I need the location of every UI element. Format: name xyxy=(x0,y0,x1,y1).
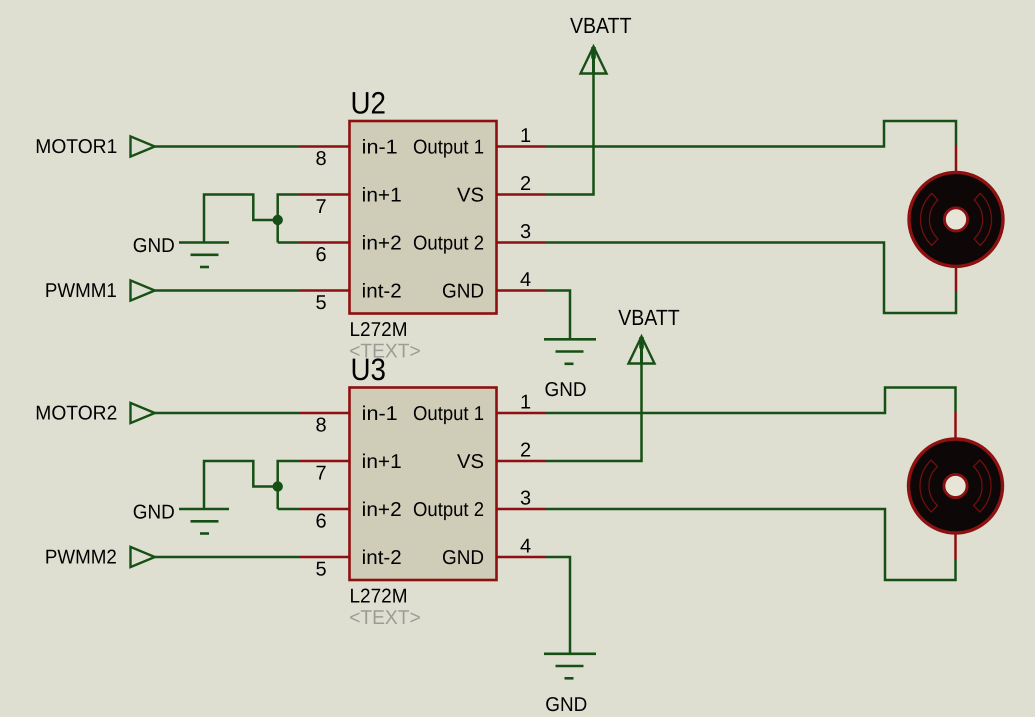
wire U2 pin 2 to VBATT xyxy=(546,74,594,195)
U2 pin 8 stub xyxy=(300,145,350,148)
wire U2 pin 6 branch xyxy=(278,241,300,244)
svg-text:GND: GND xyxy=(545,694,587,716)
svg-text:in+2: in+2 xyxy=(362,232,402,254)
terminal MOTOR1 xyxy=(131,136,155,156)
motor M1 top pin stub xyxy=(955,145,958,173)
ground symbol U3 inputs xyxy=(179,509,229,534)
svg-text:6: 6 xyxy=(315,511,326,533)
svg-text:3: 3 xyxy=(520,221,531,243)
U2 pin 1 stub xyxy=(496,145,546,148)
terminal PWMM1 xyxy=(131,280,155,300)
U2 pin 4 stub xyxy=(496,289,546,292)
svg-text:VS: VS xyxy=(457,451,484,473)
svg-text:4: 4 xyxy=(520,269,531,291)
svg-text:Output 2: Output 2 xyxy=(413,232,484,254)
junction U3 inputs xyxy=(273,481,283,491)
wire MOTOR1 to U2 pin 8 xyxy=(155,145,300,148)
svg-text:U2: U2 xyxy=(351,85,387,120)
svg-text:U3: U3 xyxy=(351,352,387,387)
motor M2 bottom pin stub xyxy=(954,533,957,559)
motor M1 bottom pin stub xyxy=(955,266,958,292)
svg-text:GND: GND xyxy=(442,280,484,302)
wire U2 pin 4 to ground xyxy=(546,291,570,340)
wire U3 pin 4 to ground xyxy=(546,557,570,654)
wire MOTOR2 to U3 pin 8 xyxy=(155,412,300,415)
junction U2 inputs xyxy=(273,215,283,225)
svg-text:GND: GND xyxy=(442,547,484,569)
svg-text:5: 5 xyxy=(315,559,326,581)
svg-text:PWMM1: PWMM1 xyxy=(45,280,117,302)
motor M2 xyxy=(909,439,1003,533)
wire U2 pin 1 to motor M1 top xyxy=(546,121,956,147)
power symbol VBATT (U3) xyxy=(629,337,655,365)
svg-text:GND: GND xyxy=(545,379,587,401)
power symbol VBATT (U2) xyxy=(581,47,607,75)
svg-text:PWMM2: PWMM2 xyxy=(45,547,117,569)
U3 pin 5 stub xyxy=(300,556,350,559)
motor M2 top pin stub xyxy=(954,412,957,441)
wire U2 pin 7 branch xyxy=(278,195,300,243)
svg-text:VS: VS xyxy=(457,184,484,206)
svg-text:2: 2 xyxy=(520,173,531,195)
motor M1 xyxy=(909,172,1003,266)
svg-text:7: 7 xyxy=(315,196,326,218)
wire U3 pin 3 to motor M2 bottom xyxy=(546,509,956,580)
svg-text:VBATT: VBATT xyxy=(570,13,632,38)
U3 pin 4 stub xyxy=(496,556,546,559)
U3 pin 8 stub xyxy=(300,412,350,415)
U2 pin 6 stub xyxy=(300,241,350,244)
svg-text:GND: GND xyxy=(133,501,175,523)
svg-text:Output 1: Output 1 xyxy=(413,136,484,158)
svg-text:MOTOR1: MOTOR1 xyxy=(35,136,117,158)
svg-text:1: 1 xyxy=(520,125,531,147)
wire U2 pin 3 to motor M1 bottom xyxy=(546,243,956,314)
ground symbol U2 inputs xyxy=(179,243,229,268)
svg-text:in-1: in-1 xyxy=(362,136,398,158)
svg-text:L272M: L272M xyxy=(350,586,408,608)
svg-text:GND: GND xyxy=(133,235,175,257)
U3 pin 2 stub xyxy=(496,460,546,463)
U3 pin 6 stub xyxy=(300,508,350,511)
svg-text:5: 5 xyxy=(315,292,326,314)
U2 pin 2 stub xyxy=(496,193,546,196)
U2 pin 3 stub xyxy=(496,241,546,244)
wire junction to ground loop U2 xyxy=(204,195,278,243)
svg-text:1: 1 xyxy=(520,392,531,414)
U2 pin 5 stub xyxy=(300,289,350,292)
U3 pin 3 stub xyxy=(496,508,546,511)
svg-text:L272M: L272M xyxy=(350,319,408,341)
svg-text:Output 2: Output 2 xyxy=(413,499,484,521)
wire U3 pin 1 to motor M2 top xyxy=(546,388,956,414)
wire PWMM2 to U3 pin 5 xyxy=(155,556,300,559)
svg-text:3: 3 xyxy=(520,488,531,510)
wire junction to ground loop U3 xyxy=(204,461,278,509)
svg-text:int-2: int-2 xyxy=(362,547,402,569)
svg-text:4: 4 xyxy=(520,536,531,558)
wire PWMM1 to U2 pin 5 xyxy=(155,289,300,292)
terminal MOTOR2 xyxy=(131,403,155,423)
wire U3 pin 2 to VBATT xyxy=(546,364,642,461)
svg-text:MOTOR2: MOTOR2 xyxy=(35,403,117,425)
wire U3 pin 6 branch xyxy=(278,508,300,511)
svg-text:6: 6 xyxy=(315,244,326,266)
svg-text:int-2: int-2 xyxy=(362,280,402,302)
U2 pin 7 stub xyxy=(300,193,350,196)
svg-text:in+1: in+1 xyxy=(362,184,402,206)
svg-text:in+1: in+1 xyxy=(362,451,402,473)
svg-text:7: 7 xyxy=(315,463,326,485)
ground symbol U2 pin 4 xyxy=(544,339,596,364)
svg-text:8: 8 xyxy=(315,415,326,437)
svg-text:in-1: in-1 xyxy=(362,403,398,425)
ground symbol U3 pin 4 xyxy=(544,654,596,679)
op-amp U3 body xyxy=(350,388,497,581)
wire U3 pin 7 branch xyxy=(278,461,300,509)
svg-text:in+2: in+2 xyxy=(362,499,402,521)
U3 pin 1 stub xyxy=(496,412,546,415)
svg-text:2: 2 xyxy=(520,440,531,462)
svg-text:8: 8 xyxy=(315,148,326,170)
svg-text:<TEXT>: <TEXT> xyxy=(349,607,421,629)
svg-text:VBATT: VBATT xyxy=(618,305,680,330)
op-amp U2 body xyxy=(350,121,497,314)
U3 pin 7 stub xyxy=(300,460,350,463)
terminal PWMM2 xyxy=(131,547,155,567)
svg-text:Output 1: Output 1 xyxy=(413,403,484,425)
